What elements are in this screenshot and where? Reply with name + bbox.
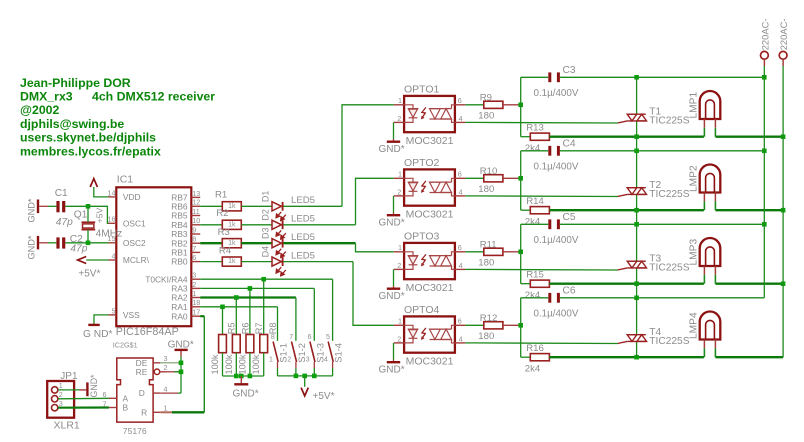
svg-text:1: 1 [192, 289, 196, 298]
svg-text:180: 180 [478, 184, 494, 195]
node mt1 terminal ch1 [781, 134, 786, 139]
svg-text:13: 13 [192, 189, 200, 198]
node rail triac ch4 [634, 296, 639, 301]
led D1 [272, 202, 286, 221]
opto OPTO4 body [404, 316, 455, 352]
node snubber junction C4 [518, 176, 523, 181]
svg-text:JP1: JP1 [60, 371, 78, 382]
ground GND* at C2 [37, 236, 39, 250]
svg-text:3: 3 [306, 356, 310, 363]
opto OPTO2 internal triac [430, 178, 455, 196]
switch S1-2 [292, 342, 297, 362]
wire AC terminal column 2 [782, 66, 784, 357]
svg-text:R11: R11 [480, 240, 497, 251]
lamp LMP3 [700, 238, 721, 266]
svg-text:1k: 1k [228, 258, 236, 265]
svg-text:3: 3 [192, 271, 196, 280]
wire R9 to snubber node [503, 104, 521, 106]
node rail terminal ch3 [762, 222, 767, 227]
wire triac column link ch3 [636, 284, 638, 298]
svg-text:1: 1 [269, 356, 273, 363]
node mt1 triac ch1 [634, 134, 639, 139]
node mt1 triac ch2 [634, 208, 639, 213]
resistor R9 body [484, 101, 503, 108]
svg-text:D: D [139, 388, 145, 398]
svg-text:220AC-: 220AC- [759, 19, 770, 51]
svg-text:R13: R13 [526, 123, 544, 134]
ground GND* at pullup bus [240, 376, 242, 383]
wire RA1 row [200, 306, 277, 308]
svg-text:R12: R12 [480, 313, 498, 324]
wire R1 to D1 [241, 205, 272, 207]
wire OPTO4 pin6 to R12 [465, 324, 484, 326]
wire RA2 row [200, 296, 296, 298]
wire S1-4 top [332, 279, 334, 341]
svg-text:3: 3 [164, 354, 168, 363]
supply +5V* arrow at MCLR [78, 257, 87, 264]
wire triac column link ch2 [636, 210, 638, 224]
resistor R10 body [484, 175, 503, 182]
svg-text:C4: C4 [563, 139, 576, 150]
svg-text:180: 180 [478, 331, 494, 342]
node snubber junction C6 [518, 323, 523, 328]
wire RA3 row [200, 287, 314, 289]
svg-text:GND*: GND* [168, 339, 194, 350]
opto OPTO4 pin stubs [394, 324, 404, 326]
wire switch +5V bus [278, 375, 333, 377]
opto OPTO3 body [404, 243, 455, 279]
node rail terminal ch1 [762, 75, 767, 80]
svg-text:R3: R3 [218, 227, 230, 238]
svg-text:6: 6 [308, 334, 312, 341]
ic IC1 PIC16F84AP body [116, 187, 191, 326]
wire VSS pin5 to ground [94, 315, 109, 325]
supply +5V* arrow down [301, 388, 308, 396]
svg-text:R14: R14 [526, 196, 544, 207]
svg-text:10: 10 [192, 216, 200, 225]
svg-text:R10: R10 [480, 166, 498, 177]
svg-text:VDD: VDD [123, 192, 141, 202]
svg-text:MOC3021: MOC3021 [406, 282, 454, 294]
capacitor C3 plates [548, 72, 551, 82]
resistor R2 body [222, 220, 241, 229]
svg-text:D2: D2 [260, 209, 270, 221]
wire mt1 row ch4 left [549, 356, 704, 358]
svg-text:LED5: LED5 [291, 214, 315, 225]
svg-text:180: 180 [478, 111, 494, 122]
node rail terminal ch2 [762, 149, 767, 154]
wire gnd vertical at IC2 [180, 357, 182, 394]
triac T4 [627, 335, 646, 342]
wire D1 cathode to OPTO1 pin1 [283, 205, 342, 207]
opto OPTO4 internal led [404, 325, 418, 343]
svg-text:+5V*: +5V* [78, 268, 100, 279]
opto OPTO4 internal triac [430, 325, 455, 343]
svg-text:TIC225S: TIC225S [649, 189, 689, 200]
led D2 [272, 220, 286, 239]
svg-text:+5V: +5V [94, 208, 104, 224]
node RA1 / R5 junction [220, 305, 225, 310]
resistor R16 body [530, 354, 549, 361]
svg-text:VSS: VSS [123, 310, 140, 320]
wire IC1 to R2 [200, 224, 222, 226]
svg-text:2: 2 [397, 334, 401, 343]
svg-text:220AC-: 220AC- [778, 19, 789, 51]
ground GND* at VSS [88, 324, 99, 326]
wire R4 to D4 [241, 261, 272, 263]
wire mt1 row ch1 left [549, 136, 704, 138]
node sbus S1-3 [312, 374, 317, 379]
svg-text:R8: R8 [268, 322, 278, 334]
capacitor C5 plates [548, 219, 551, 229]
svg-text:R2: R2 [216, 208, 228, 219]
ic IC2 pin 2 bubble and stub [154, 369, 160, 375]
wire OPTO4 pin4 to gate [465, 342, 471, 344]
svg-text:LED5: LED5 [291, 232, 315, 243]
svg-text:R15: R15 [526, 270, 544, 281]
ic IC2 75176 body [117, 358, 153, 422]
wire IC1 to R3 [200, 242, 222, 244]
wire GND to C1 [39, 205, 48, 207]
triac T3 [627, 261, 646, 268]
svg-text:RA0: RA0 [171, 311, 188, 321]
svg-text:TIC225S: TIC225S [649, 336, 689, 347]
svg-text:IC1: IC1 [117, 174, 134, 186]
wire mt1 row ch2 right [715, 209, 783, 211]
triac T3 gate [618, 268, 628, 270]
lamp LMP1 leads [703, 119, 705, 128]
resistor R4 body [222, 257, 241, 266]
node mt1 terminal ch3 [781, 281, 786, 286]
capacitor C2 plates [56, 237, 59, 248]
svg-text:11: 11 [192, 207, 199, 216]
svg-text:GND*: GND* [89, 374, 99, 398]
wire snubber vertical ch2 [520, 151, 522, 210]
switch S1-4 [328, 342, 333, 362]
connector XLR1 pin 2 circle [52, 396, 58, 402]
svg-text:LMP4: LMP4 [689, 312, 700, 339]
svg-text:4: 4 [459, 334, 463, 343]
wire S1-1 top [277, 307, 279, 341]
switch S1-3 [310, 342, 315, 362]
svg-text:6: 6 [458, 317, 462, 326]
svg-text:C6: C6 [563, 286, 576, 297]
crystal Q1 [82, 221, 96, 223]
svg-text:17: 17 [192, 308, 200, 317]
svg-text:djphils@swing.be: djphils@swing.be [20, 117, 124, 131]
wire mt1 row ch2 left [549, 209, 704, 211]
svg-text:8: 8 [271, 334, 275, 341]
svg-text:4ch DMX512 receiver: 4ch DMX512 receiver [92, 90, 215, 104]
wire triac column ch2 [636, 151, 638, 188]
wire triac column ch3 [636, 224, 638, 261]
node rail triac ch2 [634, 149, 639, 154]
triac T2 gate [618, 194, 628, 196]
node sbus supply [302, 374, 307, 379]
svg-text:2: 2 [192, 280, 196, 289]
supply +5V arrow top [90, 179, 97, 187]
opto OPTO3 pin stubs [394, 251, 404, 253]
svg-text:18: 18 [192, 298, 200, 307]
connector XLR1 pin 3 circle [52, 405, 58, 411]
resistor R7 body [246, 335, 254, 353]
wire +5V to VDD pin14 [94, 187, 109, 197]
svg-text:16: 16 [108, 215, 116, 224]
svg-text:1: 1 [398, 243, 402, 252]
lamp LMP2 leads [703, 193, 705, 202]
svg-text:TIC225S: TIC225S [649, 116, 689, 127]
wire R13 lead in [521, 136, 531, 138]
svg-text:100k: 100k [224, 354, 234, 374]
resistor R14 body [530, 207, 549, 214]
wire OPTO1 pin4 to gate [465, 121, 471, 123]
svg-text:2: 2 [59, 390, 63, 399]
svg-text:2: 2 [287, 356, 291, 363]
wire mt1 row ch4 right [715, 356, 783, 358]
wire R6 bottom [235, 353, 237, 376]
svg-text:G ND*: G ND* [83, 329, 112, 340]
lamp LMP2 [700, 165, 721, 193]
svg-text:XLR1: XLR1 [54, 420, 80, 432]
svg-text:1k: 1k [228, 203, 236, 210]
ic IC2 pin numbers [103, 354, 168, 413]
wire rail left ch4 [521, 297, 549, 299]
svg-text:R5: R5 [227, 322, 237, 334]
svg-text:4: 4 [459, 261, 463, 270]
ic IC1 left pin stubs [109, 196, 117, 198]
opto OPTO2 internal led [404, 178, 418, 196]
wire XLR1 pin3 to B [58, 406, 109, 408]
svg-text:GND*: GND* [379, 217, 405, 228]
wire rail left ch1 [521, 76, 549, 78]
node mt1 triac ch4 [634, 355, 639, 360]
wire OPTO3 pin4 to gate [465, 268, 471, 270]
svg-text:100k: 100k [251, 354, 261, 374]
triac T1 [627, 114, 646, 121]
svg-text:0.1µ/400V: 0.1µ/400V [534, 88, 579, 99]
svg-text:4MHz: 4MHz [96, 229, 123, 240]
opto OPTO2 body [404, 169, 455, 205]
svg-text:0.1µ/400V: 0.1µ/400V [534, 309, 579, 320]
svg-text:GND*: GND* [379, 291, 405, 302]
svg-text:D1: D1 [260, 191, 270, 203]
svg-text:3: 3 [59, 399, 63, 408]
wire IC1 to R1 [200, 205, 222, 207]
wire mt1 row ch3 left [549, 283, 704, 285]
svg-text:4: 4 [324, 356, 328, 363]
wire R10 to snubber node [503, 177, 521, 179]
ic IC1 left pin names [123, 192, 150, 320]
ground GND* under OPTO2 [393, 196, 395, 213]
led D4 [272, 257, 286, 276]
resistor R15 body [530, 280, 549, 287]
wire RA4 row [200, 278, 332, 280]
wire pullup ground bus [223, 375, 264, 377]
svg-text:100k: 100k [237, 354, 247, 374]
wire R7 bottom [249, 353, 251, 376]
node C1/Q1 junction [86, 204, 91, 209]
svg-text:TIC225S: TIC225S [649, 263, 689, 274]
ic IC1 right pin numbers [192, 189, 200, 317]
svg-text:LED5: LED5 [291, 250, 315, 261]
wire rail right ch2 [560, 150, 764, 152]
ground GND* under OPTO3 [393, 269, 395, 286]
wire +5V stub down [304, 376, 306, 387]
svg-text:2k4: 2k4 [525, 290, 541, 301]
opto OPTO2 pin stubs [394, 177, 404, 179]
wire mt1 row ch3 right [715, 283, 783, 285]
wire R3 to D3 [241, 242, 272, 244]
svg-text:D4: D4 [260, 246, 270, 258]
svg-text:R9: R9 [480, 93, 492, 104]
svg-text:LMP2: LMP2 [689, 165, 700, 192]
svg-text:4: 4 [164, 385, 168, 394]
svg-text:R6: R6 [240, 322, 250, 334]
svg-text:LMP1: LMP1 [689, 92, 700, 119]
svg-text:Q1: Q1 [74, 210, 88, 221]
svg-text:12: 12 [192, 198, 200, 207]
opto OPTO2 pin numbers [397, 170, 462, 197]
wire OPTO2 pin4 to gate [465, 195, 471, 197]
svg-text:14: 14 [108, 188, 116, 197]
node mt1 terminal ch2 [781, 208, 786, 213]
wire D3 cathode to OPTO3 pin1 [283, 242, 355, 244]
svg-text:MOC3021: MOC3021 [406, 356, 454, 368]
resistor R12 body [484, 322, 503, 329]
connector XLR1 body [47, 381, 74, 418]
svg-text:4: 4 [459, 114, 463, 123]
connector XLR1 pin 1 circle [52, 387, 58, 393]
resistor R6 body [232, 335, 240, 353]
svg-text:6: 6 [458, 170, 462, 179]
opto OPTO1 internal led [404, 105, 418, 123]
svg-text:GND*: GND* [379, 144, 405, 155]
svg-text:4: 4 [112, 251, 116, 260]
ground GND* at C1 [37, 200, 39, 214]
svg-text:6: 6 [458, 243, 462, 252]
svg-text:Jean-Philippe DOR: Jean-Philippe DOR [20, 76, 131, 90]
svg-text:C3: C3 [563, 65, 576, 76]
svg-text:GND*: GND* [379, 364, 405, 375]
wire S1-2 top [295, 298, 297, 341]
resistor R11 body [484, 248, 503, 255]
wire C2 to OSC2 [65, 242, 88, 244]
svg-text:RB0: RB0 [171, 257, 188, 267]
opto OPTO3 internal light arrow [422, 254, 426, 265]
svg-text:MOC3021: MOC3021 [406, 209, 454, 221]
svg-text:R16: R16 [526, 343, 544, 354]
node RA4 / R8 junction [261, 277, 266, 282]
svg-text:+5V*: +5V* [313, 391, 335, 402]
wire snubber vertical ch4 [520, 298, 522, 357]
title text block [20, 76, 215, 159]
opto OPTO1 body [404, 96, 455, 132]
svg-text:0.1µ/400V: 0.1µ/400V [534, 162, 579, 173]
wire R5 bottom [222, 353, 224, 376]
wire XLR1 pin2 to A [58, 397, 109, 400]
ic IC2 pin 1 stub [153, 411, 160, 413]
ic IC1 left pin numbers [108, 188, 116, 315]
wire R7 pullup top [249, 288, 251, 334]
triac T2 [627, 188, 646, 195]
ic IC2 pin names [123, 358, 148, 418]
svg-text:2: 2 [164, 363, 168, 372]
node mt1 triac ch3 [634, 281, 639, 286]
wire rail right ch4 [560, 297, 764, 299]
terminal 220AC-1 [761, 51, 769, 59]
wire R8 pullup top [263, 279, 265, 334]
wire OPTO3 pin6 to R11 [465, 251, 484, 253]
wire +5V* to MCLR pin4 [86, 259, 108, 261]
node rail triac ch1 [634, 75, 639, 80]
svg-text:47p: 47p [56, 217, 73, 228]
svg-text:@2002: @2002 [20, 103, 60, 117]
opto OPTO1 internal triac [430, 105, 455, 123]
svg-text:users.skynet.be/djphils: users.skynet.be/djphils [20, 131, 156, 145]
svg-text:MCLR\: MCLR\ [123, 255, 150, 265]
wire snubber vertical ch3 [520, 224, 522, 283]
wire triac column ch4 [636, 298, 638, 335]
wire rail left ch3 [521, 223, 549, 225]
wire snubber vertical ch1 [520, 77, 522, 136]
wire OPTO2 pin6 to R10 [465, 177, 484, 179]
ground GND* under OPTO4 [393, 343, 395, 360]
lamp LMP3 leads [703, 266, 705, 275]
opto OPTO2 internal light arrow [422, 181, 426, 192]
svg-text:RE: RE [136, 367, 148, 377]
wire GND to C2 [39, 242, 48, 244]
opto OPTO4 pin numbers [397, 317, 462, 344]
svg-text:DMX_rx3: DMX_rx3 [20, 90, 73, 104]
svg-text:2: 2 [397, 261, 401, 270]
wire S1-3 top [313, 288, 315, 340]
node RA2 / R6 junction [234, 295, 239, 300]
wire RE to gnd node [166, 371, 181, 373]
svg-text:47p: 47p [70, 244, 87, 255]
resistor R3 body [222, 239, 241, 248]
lamp LMP4 [700, 311, 721, 339]
wire triac column ch1 [636, 77, 638, 114]
svg-text:8: 8 [192, 235, 196, 244]
wire triac column link ch1 [636, 137, 638, 151]
wire node to OSC1 jog [88, 206, 109, 223]
svg-text:1: 1 [398, 170, 402, 179]
svg-text:0.1µ/400V: 0.1µ/400V [534, 235, 579, 246]
svg-text:1: 1 [59, 381, 63, 390]
svg-text:7: 7 [192, 244, 196, 253]
switch S1-1 [273, 342, 278, 362]
svg-text:4: 4 [459, 187, 463, 196]
opto OPTO3 pin numbers [397, 243, 462, 270]
opto OPTO4 internal light arrow [422, 328, 426, 339]
wire OPTO1 pin6 to R9 [465, 104, 484, 106]
node rail triac ch3 [634, 222, 639, 227]
svg-text:6: 6 [192, 253, 196, 262]
svg-text:1: 1 [164, 404, 168, 413]
wire AC terminal column 1 [763, 66, 765, 298]
node DE junction [179, 361, 184, 366]
node RE junction [179, 370, 184, 375]
wire rail left ch2 [521, 150, 549, 152]
svg-text:OPTO1: OPTO1 [404, 84, 440, 96]
svg-text:LED5: LED5 [291, 195, 315, 206]
svg-text:R: R [141, 407, 147, 417]
ic IC2 left pin stubs [109, 397, 117, 399]
svg-text:S1-4: S1-4 [333, 343, 344, 363]
svg-text:PIC16F84AP: PIC16F84AP [116, 326, 179, 338]
ic IC2 pin 3 stub [153, 362, 160, 364]
wire D to gnd node [160, 392, 178, 394]
